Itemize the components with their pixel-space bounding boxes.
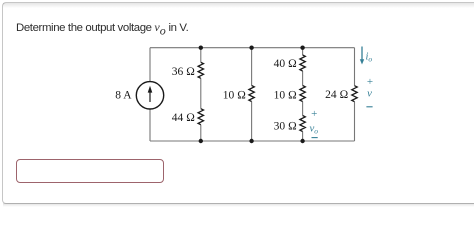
current io arrowhead (360, 59, 364, 64)
svg-text:44 Ω: 44 Ω (172, 112, 195, 124)
wire: branch 3 top segment (251, 48, 253, 86)
resistor R 40ohm zigzag (300, 55, 305, 71)
wire: branch 3 bottom segment (251, 102, 253, 142)
bottom outer shadow (3, 203, 474, 207)
minus sign of vo (312, 137, 318, 139)
wire: bottom rail (150, 140, 355, 142)
svg-text:30 Ω: 30 Ω (274, 120, 297, 132)
top inner shadow (3, 3, 474, 8)
svg-text:10 Ω: 10 Ω (223, 89, 246, 101)
resistor R 36ohm zigzag (198, 62, 203, 78)
resistor R 44ohm zigzag (198, 109, 203, 125)
node dot bottom branch4 (300, 139, 304, 143)
node dot bottom branch2 (199, 139, 203, 143)
svg-text:40 Ω: 40 Ω (274, 58, 297, 70)
wire: top rail (150, 47, 355, 49)
current io arrow shaft (361, 47, 363, 61)
resistor R 10ohm branch4 zigzag (300, 86, 305, 102)
svg-text:10 Ω: 10 Ω (274, 89, 297, 101)
wire: left branch below source (149, 109, 151, 141)
node dot top branch3 (249, 46, 253, 50)
wire: branch 4 upper middle segment (302, 71, 304, 86)
svg-text:24 Ω: 24 Ω (325, 89, 348, 101)
current source I1 arrowhead (148, 86, 153, 93)
svg-text:io: io (366, 52, 373, 64)
node dot top branch2 (199, 46, 203, 50)
wire: left branch above source (149, 48, 151, 82)
wire: branch 4 lower middle segment (302, 102, 304, 116)
svg-text:8 A: 8 A (115, 89, 132, 101)
wire: branch 2 middle segment (200, 78, 202, 108)
node dot bottom branch3 (249, 139, 253, 143)
svg-text:+: + (367, 76, 373, 88)
wire: branch 4 bottom segment (302, 132, 304, 142)
resistor R 10ohm middle branch zigzag (249, 86, 254, 102)
svg-text:+: + (311, 108, 317, 120)
wire: right branch top segment (354, 48, 356, 86)
svg-text:36 Ω: 36 Ω (172, 66, 195, 78)
minus sign of v (366, 106, 372, 108)
wire: branch 2 bottom segment (200, 125, 202, 141)
svg-text:v: v (367, 88, 372, 100)
wire: right branch bottom segment (354, 102, 356, 141)
problem title text (16, 21, 188, 34)
wire: branch 2 top segment (200, 48, 202, 63)
current source I1 arrow shaft (149, 92, 151, 103)
resistor R 24ohm zigzag (352, 86, 357, 102)
answer input box (16, 159, 164, 183)
svg-text:vo: vo (310, 122, 319, 135)
node dot top branch4 (300, 46, 304, 50)
resistor R 30ohm zigzag (300, 116, 305, 132)
current source I1 (8 A) circle (136, 82, 163, 109)
wire: branch 4 top segment (302, 48, 304, 55)
